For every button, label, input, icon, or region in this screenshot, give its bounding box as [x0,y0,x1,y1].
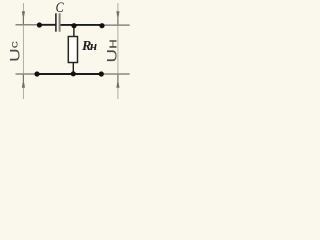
node dot bottom-right [99,71,104,76]
capacitor C left plate [55,13,57,31]
arrow left top [22,11,25,20]
background [0,0,150,100]
svg-text:C: C [56,0,65,16]
resistor Rн body [68,37,77,63]
wire bottom left stub (gray) [16,73,38,75]
node dot top-left [37,22,42,27]
svg-text:Uн: Uн [105,39,120,63]
dimension line right (Uн measurement line) [117,3,119,99]
wire top right of capacitor to node [60,24,102,26]
arrow right bottom [116,79,119,88]
svg-text:Rн: Rн [81,38,97,54]
node dot top-right [99,23,104,28]
wire top left stub (gray) [16,24,40,26]
node dot top resistor [71,23,76,28]
capacitor C right plate (gray) [59,13,61,31]
wire bottom right stub (gray) [101,73,129,75]
resistor Rн bottom lead [72,63,74,74]
wire bottom black segment [37,73,101,75]
node dot bottom-left [34,71,39,76]
wire top right stub (gray) [102,24,130,26]
node dot bottom resistor [71,71,76,76]
resistor Rн top lead [73,25,75,36]
dimension line left (Uc measurement line) [22,3,24,99]
arrow left bottom [22,79,25,88]
wire top left black segment to capacitor [39,24,56,26]
arrow right top [116,11,119,20]
